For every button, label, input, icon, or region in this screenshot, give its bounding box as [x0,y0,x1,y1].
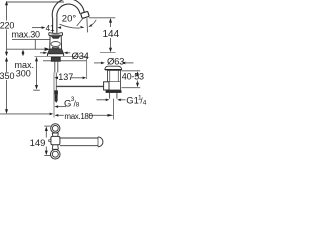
svg-text:G1: G1 [126,95,139,106]
svg-text:max.30: max.30 [12,30,41,40]
svg-text:max.180: max.180 [64,112,93,121]
svg-text:40-53: 40-53 [122,72,144,82]
svg-text:300: 300 [16,69,31,79]
svg-text:41: 41 [46,24,55,33]
svg-text:144: 144 [103,29,120,40]
svg-text:4: 4 [143,100,147,107]
svg-text:149: 149 [30,138,46,149]
svg-text:Ø63: Ø63 [107,56,124,67]
svg-text:137: 137 [58,72,73,82]
svg-text:8: 8 [76,101,80,108]
svg-text:Ø34: Ø34 [72,51,89,62]
svg-text:350: 350 [0,71,15,81]
svg-text:20°: 20° [62,13,77,24]
